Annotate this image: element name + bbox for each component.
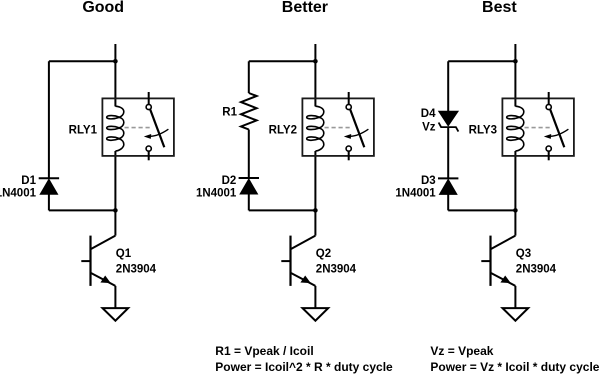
svg-text:Q3: Q3 xyxy=(516,248,531,260)
wire bottom branch horizontal (c2) xyxy=(249,209,316,211)
svg-text:RLY2: RLY2 xyxy=(269,124,297,136)
diode D3 triangle xyxy=(440,179,457,194)
svg-text:1N4001: 1N4001 xyxy=(395,187,436,199)
svg-text:1N4001: 1N4001 xyxy=(0,187,37,199)
svg-text:2N3904: 2N3904 xyxy=(516,263,557,275)
wire left branch down to zener D4 xyxy=(447,61,449,111)
svg-text:D4: D4 xyxy=(421,108,436,120)
circuit 2 spine: main wire, relay RLY2, transistor Q2, ground xyxy=(281,44,374,321)
svg-text:2N3904: 2N3904 xyxy=(316,263,357,275)
zener D4 cathode bar with bent ends xyxy=(439,123,459,132)
wire left branch down to resistor R1 xyxy=(248,61,250,93)
svg-text:Power = Icoil^2 * R * duty cyc: Power = Icoil^2 * R * duty cycle xyxy=(215,360,393,374)
svg-text:RLY3: RLY3 xyxy=(469,124,497,136)
svg-text:Good: Good xyxy=(82,0,124,16)
wire D1 to bottom corner xyxy=(48,194,50,210)
svg-text:Vz: Vz xyxy=(422,122,436,134)
circuit 3 spine: main wire, relay RLY3, transistor Q3, ground xyxy=(481,44,574,321)
circuit 1 spine: main wire, relay RLY1, transistor Q1, ground xyxy=(81,44,174,321)
wire left branch down to diode D1 xyxy=(48,61,50,178)
diode D2 cathode bar xyxy=(239,177,259,179)
wire bottom branch horizontal (c1) xyxy=(49,209,116,211)
svg-text:D3: D3 xyxy=(421,175,436,187)
svg-text:RLY1: RLY1 xyxy=(69,124,98,136)
svg-text:Better: Better xyxy=(282,0,328,16)
diode D3 cathode bar xyxy=(438,177,458,179)
wire top branch horizontal (c1) xyxy=(49,60,116,62)
wire R1 to diode D2 xyxy=(248,130,250,179)
svg-text:Q2: Q2 xyxy=(316,248,331,260)
svg-text:D1: D1 xyxy=(21,175,36,187)
svg-text:Best: Best xyxy=(482,0,517,16)
svg-text:D2: D2 xyxy=(222,175,237,187)
svg-text:R1: R1 xyxy=(222,107,237,119)
wire D3 to bottom corner xyxy=(447,194,449,210)
zener D4 triangle (pointing down) xyxy=(439,111,458,126)
svg-text:2N3904: 2N3904 xyxy=(116,263,157,275)
resistor R1 zigzag xyxy=(241,93,257,130)
svg-text:Q1: Q1 xyxy=(116,248,132,260)
svg-text:1N4001: 1N4001 xyxy=(196,187,237,199)
diode D1 cathode bar xyxy=(39,177,59,179)
wire top branch horizontal (c2) xyxy=(249,60,316,62)
svg-text:Vz = Vpeak: Vz = Vpeak xyxy=(430,344,493,358)
svg-text:Power = Vz * Icoil * duty cycl: Power = Vz * Icoil * duty cycle xyxy=(430,360,599,374)
wire D4 to diode D3 xyxy=(447,127,449,178)
wire top branch horizontal (c3) xyxy=(448,60,515,62)
diode D2 triangle xyxy=(240,179,257,194)
diode D1 triangle xyxy=(40,179,57,194)
svg-text:R1 = Vpeak / Icoil: R1 = Vpeak / Icoil xyxy=(215,344,313,358)
wire D2 to bottom corner xyxy=(248,194,250,211)
wire bottom branch horizontal (c3) xyxy=(448,209,515,211)
